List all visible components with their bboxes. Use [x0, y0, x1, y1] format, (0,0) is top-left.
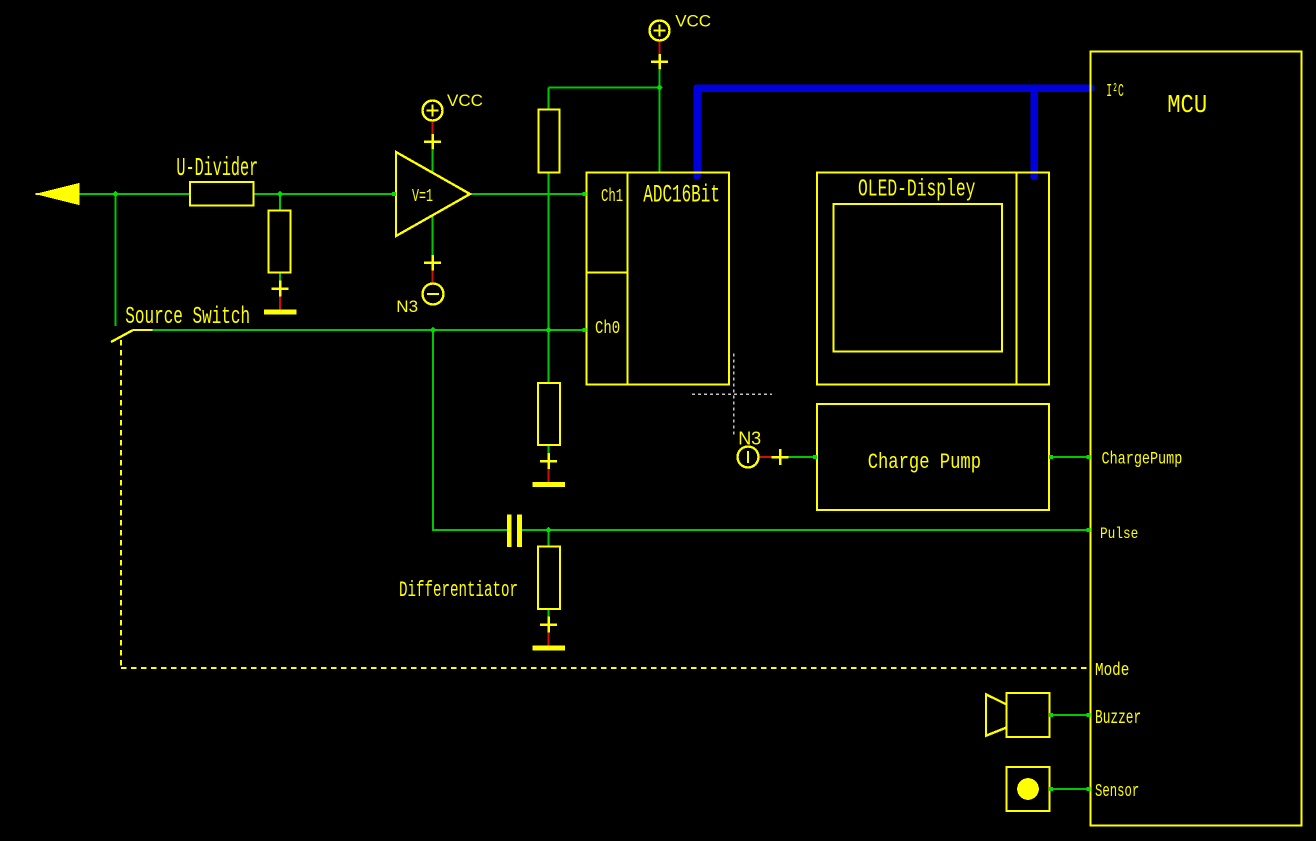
svg-text:Differentiator: Differentiator — [399, 577, 518, 603]
svg-text:Pulse: Pulse — [1100, 526, 1138, 544]
svg-text:VCC: VCC — [675, 12, 711, 31]
svg-text:N3: N3 — [738, 429, 761, 449]
svg-text:VCC: VCC — [447, 91, 483, 110]
svg-text:V=1: V=1 — [412, 185, 433, 207]
svg-text:Charge Pump: Charge Pump — [868, 449, 981, 475]
svg-text:OLED-Displey: OLED-Displey — [858, 177, 975, 204]
svg-text:U-Divider: U-Divider — [176, 154, 258, 183]
svg-text:Sensor: Sensor — [1095, 781, 1139, 802]
svg-text:ADC16Bit: ADC16Bit — [643, 182, 720, 209]
svg-text:I²C: I²C — [1106, 82, 1124, 102]
svg-text:Mode: Mode — [1095, 659, 1129, 680]
svg-text:MCU: MCU — [1167, 92, 1207, 121]
svg-text:Ch1: Ch1 — [601, 186, 623, 207]
svg-text:ChargePump: ChargePump — [1102, 449, 1183, 469]
svg-text:Ch0: Ch0 — [595, 317, 620, 339]
svg-text:Buzzer: Buzzer — [1095, 708, 1141, 729]
svg-text:Source Switch: Source Switch — [125, 304, 250, 331]
svg-text:N3: N3 — [396, 297, 418, 316]
